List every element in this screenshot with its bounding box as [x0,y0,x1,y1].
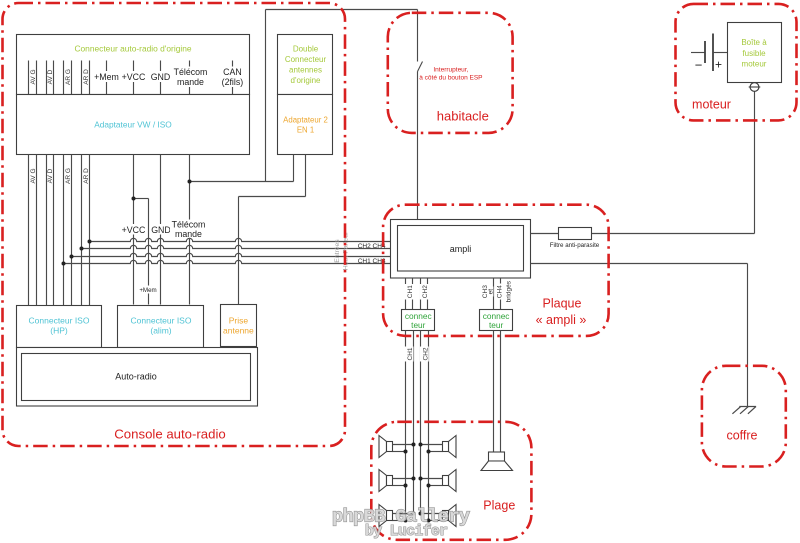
svg-text:mande: mande [175,229,202,239]
speaker LS1 (left, row 1) [379,436,416,458]
svg-text:CAN: CAN [223,67,242,77]
label Entrees Haut-Parleur (grey) [334,231,350,270]
svg-text:teur: teur [489,320,504,330]
wire speaker-level bus rear-left + (CH3) to ampli input [72,253,391,256]
svg-text:CH4: CH4 [497,285,504,298]
wire remote branch to antenna adapter and cabin switch [190,10,418,182]
wire speaker-level bus rear-right + (CH4) to ampli input [90,238,391,241]
svg-text:AR G: AR G [65,168,72,184]
svg-text:Interrupteur,: Interrupteur, [433,66,468,73]
connector bulkhead pass-through (circle) [749,83,761,92]
svg-text:GND: GND [151,225,171,235]
svg-text:Connecteur ISO: Connecteur ISO [29,316,90,326]
speaker LS4 (right, row 2) [419,470,457,492]
connector J6 "connec teur" (front outputs) [402,310,435,331]
svg-text:GND: GND [151,72,171,82]
speaker LS5 (left, row 3) [379,505,416,527]
amplifier U3 "ampli" [391,220,531,279]
zone border "moteur" [676,4,797,121]
node junction on AR line [70,255,74,259]
zone border "habitacle" [388,13,513,133]
svg-text:Connecteur ISO: Connecteur ISO [131,316,192,326]
node junction on AR line [88,240,92,244]
svg-text:Filtre anti-parasite: Filtre anti-parasite [550,242,600,249]
svg-text:CH2: CH2 [422,347,429,360]
pins of connector J1: +Mem, +VCC, GND, Telecommande, CAN [94,61,247,95]
svg-text:moteur: moteur [692,98,731,112]
fuse box "Boîte à fusible moteur" [728,23,782,83]
svg-text:Plage: Plage [483,499,515,513]
adapter U2 "Adaptateur 2 EN 1" [278,95,333,155]
zone border "coffre" [702,366,786,467]
head unit "Auto-radio" [17,348,258,407]
svg-text:bridgés: bridgés [506,280,513,302]
svg-text:+Mem: +Mem [139,287,156,294]
zone border "Console auto-radio" [3,3,346,446]
svg-text:mande: mande [177,77,204,87]
svg-text:coffre: coffre [726,429,757,443]
svg-text:CH1 CH3: CH1 CH3 [358,258,386,265]
svg-text:Console auto-radio: Console auto-radio [114,427,225,442]
svg-text:d'origine: d'origine [291,76,322,85]
node junction on AR line [80,247,84,251]
svg-text:Auto-radio: Auto-radio [115,372,157,382]
svg-text:AR G: AR G [65,69,72,85]
wire remote through cabin to ampli [417,10,419,220]
connector J5 "Prise antenne" [221,305,257,347]
pins of connector J1 (speaker pairs AV G, AV D, AR G, AR D) [29,61,91,95]
connector J4 "Connecteur ISO (alim)" [118,306,204,348]
wire GND [160,155,162,305]
svg-text:Connecteur: Connecteur [285,55,327,64]
svg-text:Entrées: Entrées [334,239,341,263]
svg-text:CH1: CH1 [407,347,414,360]
node +VCC/+Mem junction [132,197,136,201]
svg-text:Adaptateur VW / ISO: Adaptateur VW / ISO [94,120,172,130]
svg-text:antenne: antenne [223,326,254,336]
svg-text:AV G: AV G [30,168,37,183]
ampli output pins CH3+CH4 bridged [481,278,513,310]
svg-text:AV G: AV G [30,69,37,84]
speaker LS6 (right, row 3) [419,505,457,527]
svg-text:antennes: antennes [289,66,322,75]
ampli output pins CH1 / CH2 [405,278,430,310]
wire ground from ampli to trunk chassis [531,264,748,407]
connector J1 "Connecteur auto-radio d'origine" [17,35,250,95]
wire speaker-level bus rear-left - (CH1) to ampli input [64,260,391,263]
svg-text:+: + [715,58,722,72]
speaker LS3 (left, row 2) [379,470,416,492]
svg-text:−: − [695,58,703,73]
svg-text:fusible: fusible [742,49,766,58]
speaker LS7 subwoofer [481,452,513,471]
connector J3 "Connecteur ISO (HP)" [17,306,102,348]
svg-text:+VCC: +VCC [122,225,146,235]
svg-text:CH2: CH2 [422,285,429,298]
svg-text:(alim): (alim) [150,326,171,336]
svg-text:Plaque: Plaque [543,297,582,311]
svg-text:Double: Double [293,45,319,54]
wire +12V from fuse box through filter to ampli [531,92,755,234]
svg-text:Télécom: Télécom [174,67,208,77]
wire speaker pairs AV G / AV D / AR G / AR D (adapter to ISO HP connector) [29,155,91,306]
svg-text:habitacle: habitacle [437,109,489,124]
wire CH1 pair and CH2 pair to shelf speakers [405,331,430,521]
svg-text:+Mem: +Mem [94,72,119,82]
battery BT1 [691,34,728,73]
ground (chassis, trunk) [732,407,756,414]
svg-text:et: et [488,289,495,295]
svg-text:+VCC: +VCC [122,72,146,82]
node junction on AR line [62,262,66,266]
svg-text:teur: teur [411,320,426,330]
svg-text:Connecteur auto-radio d'origin: Connecteur auto-radio d'origine [74,44,191,54]
label +VCC / GND / Telecom mande (wire labels) [122,220,208,295]
connector J2 "Double Connecteur antennes d'origine" [278,35,333,95]
svg-text:Adaptateur 2: Adaptateur 2 [283,116,328,125]
wire speaker-level bus rear-right - (CH2) to ampli input [82,245,391,248]
svg-text:CH1: CH1 [407,285,414,298]
filter FL1 "Filtre anti-parasite" [550,228,600,249]
svg-text:AR D: AR D [83,168,90,184]
svg-text:Prise: Prise [229,316,249,326]
svg-text:AV D: AV D [47,168,54,183]
svg-text:AR D: AR D [83,69,90,85]
svg-text:CH2 CH4: CH2 CH4 [358,243,386,250]
svg-text:EN 1: EN 1 [297,126,314,135]
svg-text:AV D: AV D [47,69,54,84]
adapter U1 "Adaptateur VW / ISO" [17,95,250,155]
wire bridged output to subwoofer [494,331,501,453]
svg-text:Boîte à: Boîte à [741,38,767,47]
node remote junction [188,180,192,184]
svg-text:(2fils): (2fils) [222,77,244,87]
svg-text:« ampli »: « ampli » [536,313,587,327]
svg-text:moteur: moteur [742,60,767,69]
watermark phpBB Gallery by Lucifer [332,507,470,541]
wire +VCC (adapter to ISO alim connector) [133,155,135,305]
wire remote (Telecommande) [189,155,191,305]
connector J7 "connec teur" (bridged output) [480,310,513,331]
svg-text:ampli: ampli [450,244,472,254]
svg-text:Télécom: Télécom [172,220,206,230]
wire +Mem branch from +VCC node [134,199,149,305]
speaker LS2 (right, row 1) [419,436,457,458]
zone border "Plaque ampli" [383,205,608,336]
svg-text:à côté du bouton ESP: à côté du bouton ESP [419,75,482,82]
wire antenna (adaptateur 2 EN 1 to Prise antenne) [239,155,306,305]
zone border "Plage" [371,422,531,540]
svg-text:(HP): (HP) [50,326,68,336]
svg-text:by Lucifer: by Lucifer [365,524,448,540]
switch S1 "Interrupteur" [418,62,423,72]
